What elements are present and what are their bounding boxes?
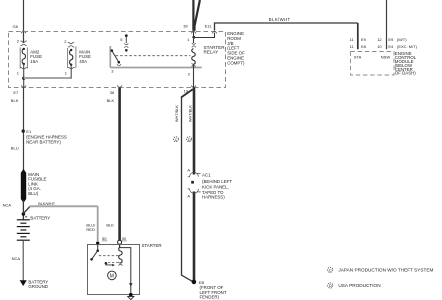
svg-text:40A: 40A <box>79 59 87 64</box>
terminal 39 label <box>183 24 188 29</box>
node E1 label <box>26 129 67 145</box>
svg-text:2: 2 <box>64 39 67 44</box>
starter terminal 50 label <box>102 236 107 241</box>
starter ground junction dot <box>129 293 133 297</box>
svg-text:E1: E1 <box>26 129 32 134</box>
production note circle C on thin wire <box>173 137 178 142</box>
svg-text:E7: E7 <box>13 90 19 95</box>
connector AC1 label <box>202 172 232 199</box>
ground EB label <box>199 280 227 299</box>
wire BLK/WHT from E11 to ECM <box>215 23 358 49</box>
terminal 19 label <box>184 89 189 94</box>
connector terminal E7 at J/B bottom edge <box>21 85 26 87</box>
wire BLU/RED label <box>86 222 96 232</box>
junction dot below AM2 fuse <box>22 77 25 80</box>
svg-text:1: 1 <box>187 37 190 42</box>
svg-text:BLK/WHT: BLK/WHT <box>269 17 291 22</box>
svg-text:M: M <box>110 273 114 279</box>
wire gray rail battery to starter <box>30 205 98 207</box>
svg-text:HARNESS): HARNESS) <box>202 194 225 199</box>
wire BLK battery cable J/B to starter <box>118 88 121 241</box>
Engine Room J/B dashed box <box>9 32 226 88</box>
wire battery negative to ground <box>22 240 24 281</box>
svg-text:39: 39 <box>183 24 188 29</box>
battery label <box>30 215 50 220</box>
in-line connector A pin label (top) <box>187 167 190 172</box>
node G8 label <box>13 24 19 29</box>
starter solenoid contact <box>90 244 99 260</box>
connector E11 label <box>205 24 213 29</box>
svg-text:(EXC. M/T): (EXC. M/T) <box>397 44 418 49</box>
wire coil bottom to connector 19 <box>193 64 195 87</box>
svg-text:NSW: NSW <box>381 55 391 60</box>
wire label above battery rail <box>38 202 56 206</box>
starter relay mechanical link (dashed) <box>116 55 191 57</box>
starter relay contact arm <box>110 46 121 68</box>
wire from ignition switch (top left, node G8) <box>23 0 25 43</box>
in-line connector A upper half <box>188 172 201 176</box>
connector E7 label <box>13 90 19 95</box>
starter terminal 30 label <box>122 236 127 241</box>
wire NCA label (upper) <box>3 203 12 208</box>
main fusible link <box>21 170 25 202</box>
ECM pin labels row 1 <box>350 37 408 42</box>
svg-text:BLU): BLU) <box>28 191 39 196</box>
starter relay coil <box>192 49 195 65</box>
svg-text:1: 1 <box>65 70 68 75</box>
main fusible link label <box>28 172 46 196</box>
svg-text:1: 1 <box>17 70 20 75</box>
arrow on starter ground wire <box>129 283 133 286</box>
wire fuse AM2 bottom to junction <box>23 64 25 88</box>
wire BLU label <box>11 146 19 151</box>
wire node 39 junction and branch to E11 <box>192 32 214 43</box>
connector terminal 19 at J/B bottom edge <box>191 85 196 87</box>
svg-text:12: 12 <box>377 37 382 42</box>
svg-text:10: 10 <box>377 44 382 49</box>
ECM pin NSW label <box>381 55 391 60</box>
battery positive mark <box>25 216 27 218</box>
svg-text:2: 2 <box>188 71 191 76</box>
starter relay label <box>204 45 226 55</box>
svg-text:COMPT): COMPT) <box>227 60 245 65</box>
starter motor M <box>108 271 117 280</box>
wire fuse MAIN bottom stub to rail <box>70 65 72 79</box>
svg-text:A: A <box>187 193 190 198</box>
svg-text:(BEHIND LEFT: (BEHIND LEFT <box>202 179 232 184</box>
svg-text:NCA: NCA <box>12 256 21 261</box>
svg-text:USA PRODUCTION: USA PRODUCTION <box>338 283 380 288</box>
fuse AM2 15A pin 2 label <box>17 39 20 44</box>
ECM pin STA label <box>354 55 362 60</box>
battery <box>17 220 30 240</box>
thick wires from ignition switch to terminal 39 <box>193 0 200 31</box>
connector terminal 39 at J/B top edge <box>191 31 196 33</box>
svg-text:11: 11 <box>350 37 355 42</box>
svg-text:A: A <box>187 167 190 172</box>
svg-text:NEAR BATTERY): NEAR BATTERY) <box>26 140 61 145</box>
svg-text:BLU: BLU <box>11 146 19 151</box>
svg-text:BLK/WHT: BLK/WHT <box>38 202 56 206</box>
wire WHT/BLK label (thick wire) <box>188 105 192 122</box>
svg-text:36: 36 <box>110 90 115 95</box>
wire fusible link to battery <box>22 200 24 220</box>
wire gray rail joining fuse bottoms <box>24 77 71 79</box>
production note circle D on thick wire <box>187 137 192 142</box>
svg-text:RELAY: RELAY <box>204 50 219 55</box>
wire WHT/BLK label (thin wire) <box>175 105 179 122</box>
svg-text:WHT/BLK: WHT/BLK <box>175 105 179 122</box>
fuse AM2 value label <box>30 49 42 63</box>
footnote C: Japan production <box>328 267 434 272</box>
fuse MAIN 40A element <box>68 46 76 68</box>
starter terminal 30 ring lug <box>118 240 122 244</box>
wire NSW to ECM <box>386 0 388 49</box>
wire BLU/RED battery rail down to starter <box>97 206 99 243</box>
starter main contact to motor <box>105 262 115 266</box>
svg-text:RED: RED <box>86 227 95 232</box>
fuse MAIN pin 1 label <box>65 70 68 75</box>
wire WHT/BLK thick (USA production) <box>193 88 196 283</box>
svg-text:50: 50 <box>102 236 107 241</box>
wire battery terminal to starter ground <box>120 248 131 295</box>
ECM dashed box <box>351 52 395 76</box>
wire gray rail from contact to coil bottom <box>110 67 201 69</box>
ECM label <box>395 51 417 75</box>
svg-text:E9: E9 <box>388 37 394 42</box>
fuse AM2 pin 1 label <box>17 70 20 75</box>
wire BLK label (left) <box>11 98 19 103</box>
wire BLK/WHT label <box>269 17 291 22</box>
wire BLK from E7 down to fusible link <box>23 88 25 173</box>
battery ground label <box>28 279 48 289</box>
svg-text:STARTER: STARTER <box>142 243 162 248</box>
svg-text:FENDER): FENDER) <box>200 294 220 299</box>
starter relay coil in-line connector (top) <box>192 43 196 47</box>
starter ground symbol <box>128 297 134 300</box>
starter box <box>88 245 140 295</box>
svg-text:E4: E4 <box>388 44 394 49</box>
starter main contact dashed link <box>108 262 120 264</box>
svg-text:C: C <box>175 137 178 142</box>
in-line connector A pin label (bottom) <box>187 193 190 198</box>
connector terminal at J/B top edge (G8 wire) <box>21 31 26 33</box>
Engine Room J/B label <box>227 31 245 65</box>
connector terminal 36 at J/B bottom edge <box>117 85 122 87</box>
svg-text:11: 11 <box>350 44 355 49</box>
starter terminal 50 square lug <box>96 242 99 245</box>
wire NCA label (lower) <box>12 256 21 261</box>
svg-text:STA: STA <box>354 55 362 60</box>
starter relay coil in-line connector (bottom) <box>192 63 196 66</box>
wire BLK label (top of battery cable) <box>107 98 115 103</box>
ground splice node E1 <box>22 129 25 132</box>
svg-text:E8: E8 <box>361 44 367 49</box>
svg-text:E11: E11 <box>205 24 213 29</box>
fuse AM2 top in-line connector <box>20 41 26 46</box>
svg-text:C: C <box>329 268 332 273</box>
wire BLK label (bottom of battery cable) <box>106 222 114 227</box>
ECM pin labels row 2 <box>350 44 418 49</box>
starter label <box>142 243 162 248</box>
starter relay contact fixed-terminal stub <box>124 34 128 51</box>
svg-text:E9: E9 <box>361 37 367 42</box>
ground node EB dot <box>192 280 197 285</box>
starter solenoid coil <box>118 244 122 265</box>
battery ground symbol <box>20 280 27 286</box>
svg-text:5: 5 <box>120 37 123 42</box>
fuse MAIN 40A pin 2 label <box>64 39 67 44</box>
footnote D: USA production <box>328 283 381 288</box>
starter relay coil pin 2 label <box>188 71 191 76</box>
splice dot in connector A <box>191 181 194 184</box>
svg-text:D: D <box>188 137 191 142</box>
svg-text:15A: 15A <box>30 59 38 64</box>
svg-text:2: 2 <box>17 39 20 44</box>
svg-text:BLK: BLK <box>11 98 19 103</box>
svg-text:AC1: AC1 <box>202 172 211 177</box>
svg-text:JAPAN PRODUCTION W/O THEFT SYS: JAPAN PRODUCTION W/O THEFT SYSTEM <box>338 267 433 272</box>
svg-text:D: D <box>329 283 332 288</box>
starter relay coil pin 1 label <box>187 37 190 42</box>
starter relay contact pin 3 label <box>111 69 114 74</box>
connector terminal E11 at J/B top edge <box>212 31 217 33</box>
svg-text:(M/T): (M/T) <box>397 37 407 42</box>
svg-text:3: 3 <box>111 69 114 74</box>
starter solenoid mechanical link (dashed) <box>99 255 120 257</box>
fuse MAIN top in-line connector <box>68 42 74 47</box>
svg-text:BATTERY: BATTERY <box>30 215 50 220</box>
svg-text:GROUND: GROUND <box>28 284 48 289</box>
fuse AM2 15A element <box>20 47 27 69</box>
wire branch battery to starter (diagonal) <box>23 206 30 213</box>
terminal 36 label <box>110 90 115 95</box>
in-line connector A lower half <box>188 189 201 193</box>
wire WHT/BLK thin branch (Japan production) <box>181 89 193 281</box>
svg-text:BLK: BLK <box>106 222 114 227</box>
svg-text:OF DASH): OF DASH) <box>395 71 417 76</box>
svg-text:BLK: BLK <box>107 98 115 103</box>
junction dot at battery positive <box>22 212 26 216</box>
svg-text:NCA: NCA <box>3 203 12 208</box>
svg-text:30: 30 <box>122 236 127 241</box>
fuse MAIN value label <box>79 49 91 63</box>
svg-text:G8: G8 <box>13 24 19 29</box>
svg-text:WHT/BLK: WHT/BLK <box>188 105 192 122</box>
starter relay contact pin 5 label <box>120 37 123 42</box>
